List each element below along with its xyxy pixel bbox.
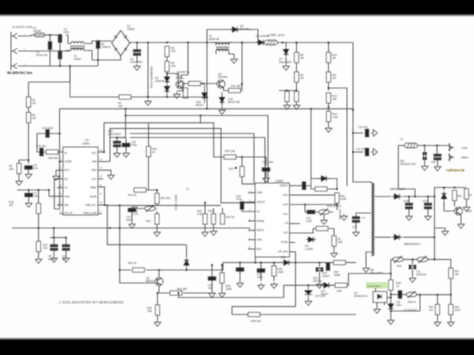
node D6 anode xyxy=(241,42,243,44)
resistor R13b xyxy=(326,111,330,121)
svg-text:(high LED): (high LED) xyxy=(279,60,292,64)
wire ZD2 xyxy=(424,146,426,165)
wire C17 xyxy=(132,207,137,222)
zener ZD2 xyxy=(423,153,427,160)
resistor R47 xyxy=(229,88,241,92)
svg-text:L2 BRT_pk-01: L2 BRT_pk-01 xyxy=(268,33,285,37)
svg-text:BD679: BD679 xyxy=(146,279,154,283)
wire R24 xyxy=(213,224,215,229)
ground D14 xyxy=(387,318,394,324)
svg-text:470: 470 xyxy=(429,309,434,312)
connector output +19V xyxy=(448,143,454,152)
wire N line xyxy=(29,50,70,52)
wire C24 xyxy=(260,263,262,281)
ground C12 xyxy=(63,256,70,262)
svg-text:VCC: VCC xyxy=(91,152,96,155)
resistor R28 xyxy=(315,187,327,191)
svg-text:40mH: 40mH xyxy=(74,57,81,61)
ground R12 xyxy=(284,103,291,109)
ground mid xyxy=(341,214,348,220)
wire R19 xyxy=(148,123,150,190)
transformer T1 common-mode choke xyxy=(66,35,92,60)
trimmer RV6 xyxy=(406,291,417,298)
wire R35 xyxy=(221,265,223,291)
wire C30 xyxy=(436,146,439,165)
diode D12 xyxy=(392,194,402,199)
wire L3 out xyxy=(417,145,450,147)
resistor R31 xyxy=(332,236,336,246)
svg-text:R18 10K: R18 10K xyxy=(48,156,58,160)
node Q2 col xyxy=(158,269,160,271)
ground RV2 xyxy=(321,218,328,224)
svg-text:100n: 100n xyxy=(257,275,263,279)
row y294.7 xyxy=(417,294,451,296)
resistor R38 xyxy=(248,312,260,316)
node left col xyxy=(28,159,30,161)
node top rail xyxy=(49,34,51,36)
svg-text:470u/400V: 470u/400V xyxy=(130,60,143,64)
svg-text:R20 1K: R20 1K xyxy=(128,193,137,197)
svg-text:LG450: LG450 xyxy=(305,247,313,251)
wire R23 xyxy=(204,203,206,230)
svg-text:BA157-B6: BA157-B6 xyxy=(228,100,240,104)
wire D14 tail xyxy=(390,311,392,318)
ground C6 xyxy=(25,172,32,178)
svg-text:(SR-B21T-3W): (SR-B21T-3W) xyxy=(400,163,416,166)
U4 left pin stubs xyxy=(248,193,255,249)
wire HV rail drop x353 xyxy=(353,43,368,183)
wire U3 pin5 stub xyxy=(57,187,63,189)
diode D17 xyxy=(322,283,332,288)
ground U8 xyxy=(305,299,312,305)
wire E line xyxy=(29,65,98,67)
resistor R12b xyxy=(294,91,298,101)
wire rail y285 xyxy=(179,274,391,298)
U4 pin names right xyxy=(278,185,289,254)
wire T3 primary mid tap xyxy=(356,213,371,217)
ground ZD2 xyxy=(421,164,428,170)
transformer T3 windings xyxy=(371,183,375,256)
ground R44 xyxy=(434,320,441,326)
svg-text:1K: 1K xyxy=(469,194,472,197)
ground R45 xyxy=(447,320,454,326)
resistor R26 xyxy=(224,155,236,159)
wire snubber loop xyxy=(207,30,258,43)
resistor R9 xyxy=(294,72,298,82)
resistor R11 xyxy=(326,72,330,82)
ground C18 xyxy=(263,176,270,182)
wire C16 xyxy=(125,138,127,152)
svg-text:33K: 33K xyxy=(118,104,123,108)
resistor R19 xyxy=(146,146,150,156)
transistor Q3 xyxy=(455,207,463,215)
wire R3 branch xyxy=(19,160,29,163)
node boost xyxy=(336,188,338,190)
svg-text:R38 10K: R38 10K xyxy=(251,319,261,323)
svg-text:BUT11: BUT11 xyxy=(176,76,184,80)
resistor R2 xyxy=(26,112,30,122)
bus vertical x59.6 xyxy=(59,109,61,209)
wire T3 primary top xyxy=(368,182,371,183)
resistor R34 xyxy=(155,305,159,315)
svg-text:100n: 100n xyxy=(64,30,70,34)
node x188 xyxy=(187,42,189,44)
wire fb mid row xyxy=(391,294,399,296)
wire +19V riser xyxy=(398,146,415,197)
wire C29 xyxy=(427,197,429,215)
optocoupler U5 xyxy=(373,288,391,305)
capacitor C24 xyxy=(257,269,265,272)
resistor R42 xyxy=(464,189,468,199)
svg-text:100n: 100n xyxy=(126,218,132,222)
diode D3 xyxy=(164,75,169,84)
svg-text:L5991: L5991 xyxy=(82,142,90,146)
wire U3 pinR8 stub xyxy=(98,213,102,215)
svg-text:PCB L6598: PCB L6598 xyxy=(174,194,178,210)
resistor R16 xyxy=(36,203,40,213)
capacitor C5 xyxy=(133,50,140,56)
svg-text:C27: C27 xyxy=(352,225,357,229)
svg-text:R32 1K: R32 1K xyxy=(128,261,137,265)
capacitor C20 xyxy=(302,182,305,190)
wire R13 col xyxy=(328,104,330,127)
wire C23 xyxy=(239,263,241,281)
svg-text:(470n-X2): (470n-X2) xyxy=(36,53,48,57)
resistor R49 xyxy=(183,88,187,98)
wire base row xyxy=(189,83,217,85)
wire L line xyxy=(29,35,33,36)
U4 pin names left xyxy=(257,192,266,251)
ground stub right xyxy=(435,228,446,229)
svg-text:SGND: SGND xyxy=(90,195,97,198)
svg-text:10uF/16V: 10uF/16V xyxy=(416,274,427,277)
trimmer RV2 xyxy=(319,209,330,216)
wire C18 row xyxy=(242,157,266,166)
wire C27 tail xyxy=(355,223,357,231)
svg-text:schematic: schematic xyxy=(367,284,381,288)
svg-text:HF_US: HF_US xyxy=(65,212,73,215)
svg-text:DC: DC xyxy=(65,178,69,181)
wire U3 pin8 stub xyxy=(60,213,63,215)
diode D8 xyxy=(319,176,329,181)
svg-text:1M: 1M xyxy=(300,56,304,60)
resistor R10 xyxy=(326,52,330,62)
ground R31 xyxy=(331,251,338,257)
wire feed row y157 xyxy=(222,156,242,158)
op-amp U3 box L5991 xyxy=(63,147,98,215)
ground C29 xyxy=(425,214,432,220)
zener D7 xyxy=(283,48,288,57)
wire D15 xyxy=(204,84,206,104)
TL431 U8 xyxy=(304,285,312,299)
wire sec rail cont xyxy=(403,196,435,198)
resistor R4 xyxy=(119,95,131,99)
diode D6 xyxy=(256,40,266,45)
wire PGND row xyxy=(290,241,296,243)
svg-text:1M: 1M xyxy=(332,76,336,80)
svg-text:DELAY: DELAY xyxy=(257,229,265,232)
svg-text:2SC945: 2SC945 xyxy=(218,75,228,79)
wire rail y293 xyxy=(159,292,215,294)
wire C7 xyxy=(28,190,30,201)
capacitor CX2 xyxy=(58,51,61,59)
wire U3 pin4 stub xyxy=(54,179,63,209)
svg-text:C14 120n: C14 120n xyxy=(42,126,54,130)
svg-text:1M: 1M xyxy=(332,56,336,60)
ground C28 xyxy=(406,214,413,220)
svg-text:OUT: OUT xyxy=(91,178,97,181)
wire U4 EN drop xyxy=(254,257,256,263)
svg-text:J1 AC/TV CON: J1 AC/TV CON xyxy=(12,25,32,29)
startup cluster: wire y190 xyxy=(17,189,49,191)
wire R44 xyxy=(437,295,439,320)
svg-text:BA157: BA157 xyxy=(196,103,204,107)
svg-text:22n: 22n xyxy=(34,166,39,170)
resistor R30 xyxy=(316,226,328,230)
svg-text:470p: 470p xyxy=(131,143,137,147)
wire R22 tail xyxy=(156,225,158,231)
capacitor C23 xyxy=(236,268,244,271)
svg-text:PWR_DLY: PWR_DLY xyxy=(85,204,97,207)
letterbox top bar xyxy=(0,0,474,17)
svg-text:1K: 1K xyxy=(396,284,399,288)
wire R16 xyxy=(38,190,40,228)
fuse F1 xyxy=(33,33,46,37)
wire U6 xyxy=(412,259,414,276)
svg-text:RFMIN: RFMIN xyxy=(257,220,265,223)
wire U3 pinR3 gnd xyxy=(98,170,111,173)
resistor R48 xyxy=(335,283,347,287)
wire RV2 xyxy=(315,212,333,218)
right regulator: wire top xyxy=(435,188,467,197)
wire CX column xyxy=(59,35,61,66)
svg-text:2W: 2W xyxy=(9,203,13,207)
wire C19 xyxy=(242,202,248,212)
svg-text:RV4: RV4 xyxy=(397,265,402,268)
resistor R37 xyxy=(334,260,346,264)
wire R45 xyxy=(450,295,452,320)
U3 pin names right xyxy=(83,152,97,215)
wire U3 pin3 stub xyxy=(56,170,63,174)
svg-text:1N4148: 1N4148 xyxy=(155,79,165,83)
svg-text:OP_SGN: OP_SGN xyxy=(278,250,288,253)
svg-text:1M: 1M xyxy=(300,76,304,80)
bridge rectifier D1 xyxy=(112,31,130,56)
wire bus line2 xyxy=(126,116,268,187)
wire out down xyxy=(336,205,338,211)
svg-text:100R: 100R xyxy=(340,197,346,201)
wire Q2 xyxy=(158,270,160,293)
wire x188 vertical xyxy=(181,43,188,80)
resistor ladder R8 xyxy=(294,52,298,62)
diode D16 xyxy=(219,96,224,105)
diode D5 xyxy=(230,27,240,32)
svg-text:1n5K: 1n5K xyxy=(306,219,312,223)
capacitor C29 xyxy=(424,203,431,209)
svg-text:PGND: PGND xyxy=(281,241,288,244)
svg-text:98-265V/AC line: 98-265V/AC line xyxy=(7,71,33,75)
capacitor C17 xyxy=(128,208,136,211)
svg-text:4A600: 4A600 xyxy=(127,27,135,31)
ground C17 xyxy=(129,222,136,228)
capacitor C8 xyxy=(50,245,57,251)
capacitor C15 xyxy=(113,141,120,147)
resistor R6 xyxy=(165,61,169,71)
wire bus line3 xyxy=(104,123,222,157)
wire C8 xyxy=(53,238,55,256)
capacitor C28 xyxy=(405,203,412,209)
wire HVG row xyxy=(290,194,338,196)
wire U3 pin7 stub xyxy=(57,204,63,206)
capacitor C26 xyxy=(398,291,401,299)
wire left col top bend xyxy=(29,66,71,82)
wire Q3 emitter xyxy=(460,215,462,222)
svg-text:R21 2K2: R21 2K2 xyxy=(161,196,172,200)
svg-text:TRIMMER: TRIMMER xyxy=(339,209,342,220)
svg-text:1K: 1K xyxy=(152,150,155,154)
wire U3 pinR4 long out xyxy=(98,187,221,206)
wire R30 xyxy=(313,229,334,231)
wire right drop xyxy=(434,197,436,260)
ground C24 xyxy=(258,283,265,289)
wire OUT row xyxy=(290,204,338,205)
wire L3 row xyxy=(398,145,405,147)
ground C30 xyxy=(434,165,441,171)
wire LVG row xyxy=(290,229,314,234)
svg-text:1.5M: 1.5M xyxy=(332,115,338,119)
svg-text:EE42-08: EE42-08 xyxy=(209,37,220,41)
svg-text:1M: 1M xyxy=(32,116,36,120)
svg-text:R24: R24 xyxy=(208,209,213,213)
inductor L2 xyxy=(265,40,278,45)
wire U3 pin6 stub xyxy=(49,190,63,196)
svg-text:+C29: +C29 xyxy=(422,200,428,203)
capacitor C4 xyxy=(96,41,99,49)
wire fb row cont xyxy=(402,294,406,296)
svg-text:VS: VS xyxy=(285,222,289,225)
capacitor C10 xyxy=(365,129,368,137)
ground C16 xyxy=(123,151,130,157)
ground U5 xyxy=(374,307,381,313)
wire U3 pinR4 stub xyxy=(98,178,103,180)
svg-text:(5V1W): (5V1W) xyxy=(313,279,322,283)
ground C7 xyxy=(25,201,32,207)
node divider mid xyxy=(296,90,298,92)
diode D11 xyxy=(282,260,292,265)
svg-text:R47 2R2: R47 2R2 xyxy=(231,84,242,88)
svg-text:L6598: L6598 xyxy=(275,179,283,183)
wire OPSGN row xyxy=(290,252,296,307)
svg-text:100n: 100n xyxy=(396,304,402,307)
resistor R12 xyxy=(285,91,289,101)
capacitor CX1 xyxy=(58,35,61,43)
pin numbers U3 left xyxy=(60,150,62,213)
resistor R7 xyxy=(189,81,201,85)
svg-text:RCT: RCT xyxy=(65,169,70,172)
wire right fb vertical xyxy=(419,295,421,311)
wire R34 xyxy=(157,293,159,320)
svg-text:OSC: OSC xyxy=(65,195,70,198)
ground ZD1 xyxy=(316,282,323,288)
capacitor C21 xyxy=(307,210,315,213)
svg-text:PWR_LLPM: PWR_LLPM xyxy=(83,212,96,215)
svg-text:51K: 51K xyxy=(43,246,48,250)
wire bus line4 xyxy=(110,128,255,202)
ground R3 xyxy=(16,179,23,185)
capacitor C18 xyxy=(262,168,270,171)
svg-text:RV2 (MF33): RV2 (MF33) xyxy=(327,204,341,208)
resistor R22 xyxy=(155,214,159,224)
ground D16 xyxy=(219,108,226,114)
svg-text:EN2: EN2 xyxy=(257,248,262,251)
capacitor C6 xyxy=(25,166,33,169)
wire osc row xyxy=(147,190,158,193)
wire snub cap2 xyxy=(353,151,363,153)
ground pin3 xyxy=(53,174,60,180)
capacitor C1 xyxy=(48,42,51,50)
node T2 left xyxy=(206,42,208,44)
ground C11 sideways xyxy=(371,149,377,156)
wire bottom primary rail xyxy=(70,66,207,97)
resistor R33 xyxy=(170,291,182,295)
svg-text:C11 10n: C11 10n xyxy=(356,147,366,151)
svg-text:VCC: VCC xyxy=(283,213,288,216)
wire C21 xyxy=(305,205,307,213)
resistor R43 xyxy=(449,268,453,278)
node y228 crossings xyxy=(109,227,111,229)
wire rail y265 xyxy=(120,263,356,270)
ground R35 xyxy=(219,291,226,297)
inductor L3 xyxy=(405,143,418,148)
wire ZD1 xyxy=(319,263,321,282)
zener ZD1 xyxy=(316,267,323,271)
ground C8 xyxy=(51,256,58,262)
wire PCB boundary xyxy=(147,43,149,98)
ground R13 xyxy=(325,126,332,132)
wire D16 xyxy=(221,92,223,108)
node R5 top xyxy=(166,42,168,44)
node C5 xyxy=(136,42,138,44)
svg-text:HVG: HVG xyxy=(283,194,288,197)
wire C1 xyxy=(49,35,51,66)
wire Q1 base xyxy=(167,74,178,81)
wire U3 pinR7 down-right xyxy=(98,205,186,245)
resistor R24 xyxy=(211,214,215,224)
svg-text:BYV26C: BYV26C xyxy=(240,27,250,31)
wire gnd rail y228 xyxy=(12,227,250,229)
svg-text:R27: R27 xyxy=(229,167,234,171)
diode D10 xyxy=(184,258,189,267)
ground U6 xyxy=(409,276,416,282)
wire D4 to rail xyxy=(166,94,168,97)
svg-text:1.5K: 1.5K xyxy=(197,212,203,216)
ground C15 xyxy=(114,151,121,157)
resistor R44 xyxy=(435,304,439,314)
wire feedback drop to Q2 xyxy=(120,205,160,283)
svg-text:10K: 10K xyxy=(332,97,337,101)
capacitor C30 xyxy=(434,154,441,160)
wire main HV rail xyxy=(130,42,353,44)
capacitor C25 xyxy=(326,263,329,271)
svg-text:OUT: OUT xyxy=(283,203,289,206)
svg-text:1K24: 1K24 xyxy=(455,309,461,312)
ground C27 xyxy=(353,230,360,236)
capacitor C12 xyxy=(62,245,69,251)
svg-text:R25 1K: R25 1K xyxy=(226,215,235,219)
resistor R41 xyxy=(452,190,456,200)
resistor R21 xyxy=(155,193,159,203)
opto feedback: resistor R39 xyxy=(389,280,393,290)
